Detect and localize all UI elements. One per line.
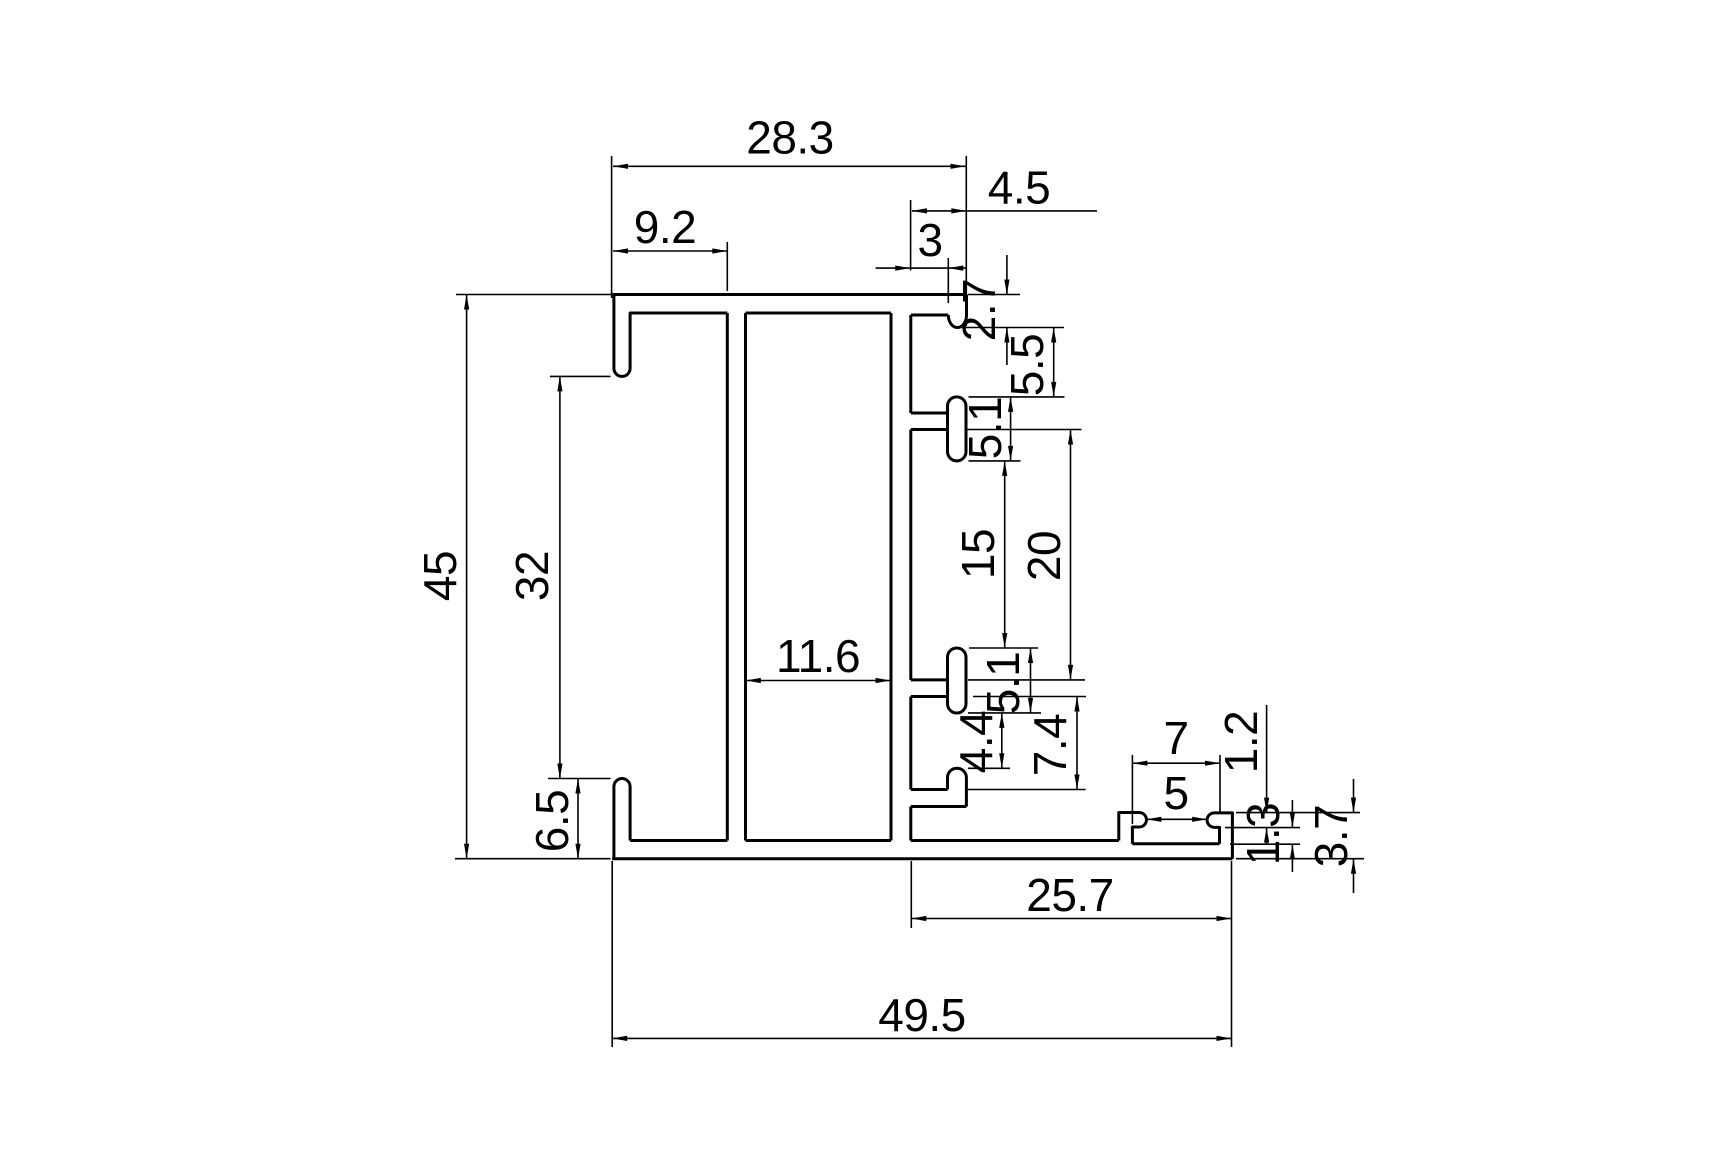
svg-text:3.7: 3.7 <box>1305 805 1357 867</box>
profile wall B left face <box>890 313 893 841</box>
profile screw-boss bulb under top-right corner <box>948 315 966 328</box>
dim line 9.2 <box>613 250 727 252</box>
svg-text:3: 3 <box>917 214 942 266</box>
profile lower fin top surface <box>911 788 948 791</box>
dim line 7 <box>1132 762 1220 764</box>
svg-text:6.5: 6.5 <box>526 790 578 852</box>
arrowheads 25.7 <box>911 916 926 921</box>
dim line 6.5 <box>577 779 579 859</box>
arrowheads 6.5 <box>575 779 580 794</box>
dim line 4.5 <box>912 210 1097 212</box>
profile wall A right face <box>744 313 747 841</box>
extension line 1.3 bottom (channel floor) <box>1230 843 1300 845</box>
dim line 4.4 <box>1001 713 1003 768</box>
extension line 32 top <box>550 375 611 377</box>
profile euro-groove lip 1 stem <box>911 412 948 415</box>
svg-text:1.2: 1.2 <box>1215 711 1267 773</box>
arrowheads 7.4 <box>1074 697 1079 712</box>
dim line 3.7 (outside arrows) <box>1353 779 1355 813</box>
extension line 5.1 bottom / 15 top <box>969 460 1021 462</box>
svg-text:32: 32 <box>506 551 558 601</box>
arrowheads 3 (outside) <box>895 266 910 271</box>
svg-text:5.1: 5.1 <box>959 397 1011 459</box>
dim line 3 <box>876 267 967 269</box>
svg-text:7.4: 7.4 <box>1024 714 1076 776</box>
dim line 11.6 <box>746 680 891 682</box>
arrowheads 28.3 <box>613 164 628 169</box>
extension line 9.2 right <box>726 242 728 291</box>
svg-text:20: 20 <box>1018 531 1070 581</box>
dim line 2.7 (outside arrows) <box>1006 255 1008 295</box>
svg-text:1.3: 1.3 <box>1237 803 1289 865</box>
arrowheads 49.5 <box>612 1036 627 1041</box>
svg-text:9.2: 9.2 <box>634 201 696 253</box>
extension line 32 bottom / 6.5 top <box>548 778 611 780</box>
svg-text:4.5: 4.5 <box>988 162 1050 214</box>
extension line 7 left <box>1131 755 1133 824</box>
svg-text:2.7: 2.7 <box>953 279 1005 341</box>
extension line 4.4 bottom (arch top) <box>968 767 1010 769</box>
profile wall B right face segments <box>909 315 912 413</box>
arrowheads 9.2 <box>613 248 628 253</box>
arrowheads 4.5 <box>912 208 927 213</box>
extension line 45 top <box>456 294 611 296</box>
arrowheads 5.5 <box>1051 328 1056 343</box>
profile euro-groove lip 2 crossbar (stadium) <box>948 648 967 713</box>
dim line 15 <box>1004 461 1006 648</box>
extension line 15 bottom (crossbar2 top) <box>969 647 1038 649</box>
profile top edge <box>612 293 966 296</box>
profile top-right edge <box>965 295 968 316</box>
dim line 1.2 (outside arrows) <box>1266 705 1268 813</box>
profile bottom flange inner surface between walls <box>746 839 892 842</box>
profile bottom flange inner surface left of wall A <box>630 839 727 842</box>
profile arch finger at fin tip <box>948 768 967 806</box>
dim line 5.1 upper <box>1010 397 1012 461</box>
extension line 20 top (stem1 bottom) <box>966 429 1082 431</box>
arrowheads 11.6 <box>746 678 761 683</box>
extension line 28.3 left <box>611 156 613 298</box>
svg-text:45: 45 <box>414 551 466 601</box>
svg-text:5: 5 <box>1163 767 1188 819</box>
svg-text:5.5: 5.5 <box>1001 334 1053 396</box>
profile snap channel left upstand with nub <box>1119 813 1147 844</box>
arrowheads 5.1 upper <box>1008 397 1013 412</box>
extension line 7.4 bottom (fin top) <box>968 789 1086 791</box>
extension line 28.3 right <box>965 156 967 326</box>
extension line 25.7/49.5 right <box>1231 861 1233 1047</box>
svg-text:25.7: 25.7 <box>1026 869 1114 921</box>
arrowheads 2.7 (outside) <box>1004 280 1009 295</box>
dim line 32 <box>559 376 561 778</box>
dim line 49.5 <box>612 1037 1231 1039</box>
svg-text:7: 7 <box>1163 712 1188 764</box>
dim line 25.7 <box>911 918 1231 920</box>
profile bottom flange inner surface right of wall B <box>911 839 1119 842</box>
dim line 5.5 <box>1053 328 1055 397</box>
profile bottom edge <box>612 857 1232 860</box>
profile top flange underside (between wall A and wall B) <box>746 312 892 315</box>
arrowheads 5.1 lower <box>1028 648 1033 663</box>
dim line 5.1 lower <box>1030 648 1032 713</box>
dim line 28.3 <box>613 165 966 167</box>
profile lower fin underside <box>911 805 967 808</box>
extension line 5.1b bottom (crossbar2 bottom) <box>968 712 1041 714</box>
svg-text:15: 15 <box>952 529 1004 579</box>
arrowheads 5 <box>1146 817 1161 822</box>
extension line 2.7 bottom / 5.5 top <box>956 327 1064 329</box>
dim line 5 <box>1146 818 1207 820</box>
arrowheads 1.2 (outside) <box>1264 798 1269 813</box>
extension line 20 bottom (stem2 top) <box>968 679 1085 681</box>
svg-text:28.3: 28.3 <box>746 112 834 164</box>
arrowheads 4.4 <box>999 713 1004 728</box>
svg-text:11.6: 11.6 <box>776 630 860 682</box>
profile snap channel floor <box>1132 842 1219 845</box>
extension line 1.2/3.7 top (upstand top) <box>1236 812 1360 814</box>
arrowheads 20 <box>1068 430 1073 445</box>
extension line 49.5 left <box>611 861 613 1047</box>
arrowheads 7 <box>1132 761 1147 766</box>
svg-text:4.4: 4.4 <box>950 711 1002 773</box>
profile snap channel right upstand with nub and right edge <box>1207 813 1232 859</box>
arrowheads 45 <box>464 295 469 310</box>
extension line 7 right <box>1219 755 1221 812</box>
extension line 25.7 left <box>910 861 912 928</box>
extension line 4.5/3 left <box>910 200 912 271</box>
profile wall A left face <box>726 313 729 841</box>
extension line 5.5 bottom / 5.1 top <box>969 396 1065 398</box>
extension line 1.2 bottom / 1.3 top (nub bottom) <box>1225 827 1300 829</box>
profile euro-groove lip 1 crossbar (stadium) <box>948 397 967 461</box>
extension line 7.4 top (stem2 bottom) <box>973 696 1086 698</box>
dim line 20 <box>1070 430 1072 680</box>
extension line 3 right <box>947 258 949 303</box>
profile bottom-left upward hook <box>614 779 630 859</box>
dim line 1.3 (outside arrows) <box>1291 800 1293 828</box>
extension line 2.7 top <box>968 294 1020 296</box>
dim line 45 <box>466 295 468 859</box>
profile top-left downward finger (U slot) <box>614 295 727 377</box>
svg-text:5.1: 5.1 <box>977 652 1029 714</box>
svg-text:49.5: 49.5 <box>878 989 966 1041</box>
extension line 3.7 bottom <box>1236 858 1364 860</box>
arrowheads 32 <box>557 376 562 391</box>
arrowheads 1.3 (outside) <box>1290 813 1295 828</box>
profile top flange underside right of wall B <box>911 314 949 317</box>
dim line 7.4 <box>1076 697 1078 790</box>
arrowheads 15 <box>1002 461 1007 476</box>
profile euro-groove lip 2 stem <box>911 678 948 681</box>
arrowheads 3.7 (outside) <box>1351 798 1356 813</box>
extension line 45/6.5 bottom <box>455 858 611 860</box>
